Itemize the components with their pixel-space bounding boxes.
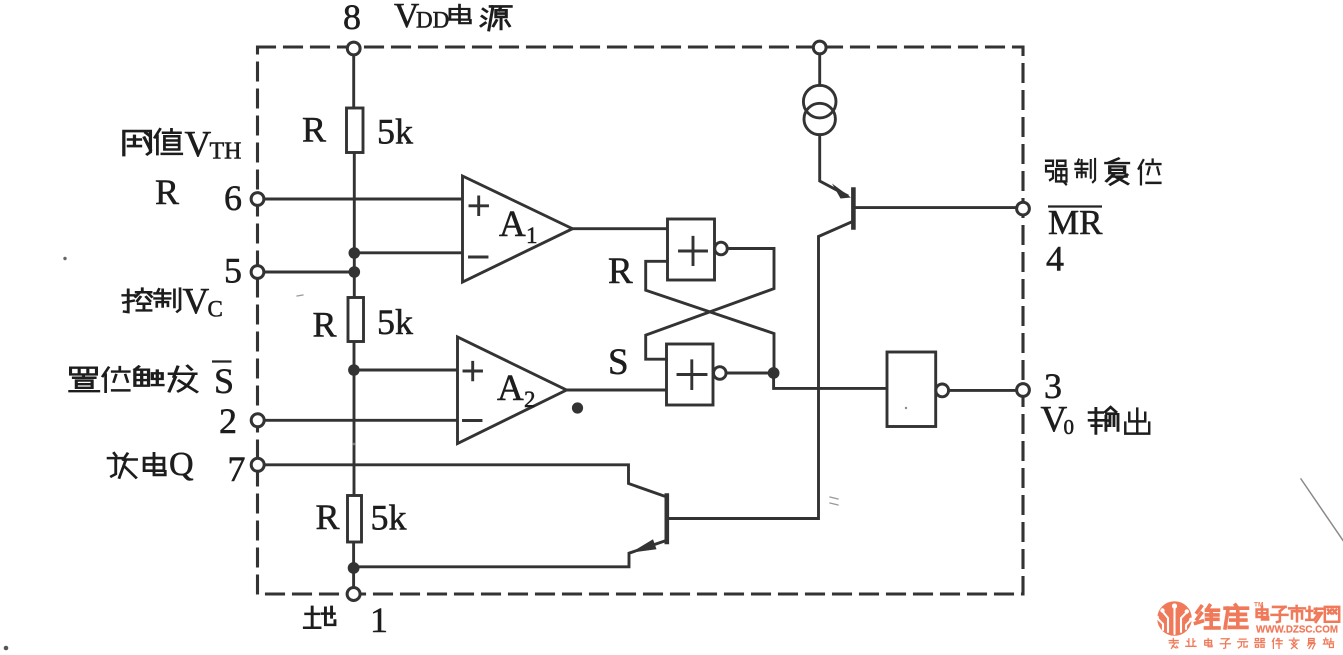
svg-text:5k: 5k bbox=[377, 302, 413, 342]
svg-text:R: R bbox=[313, 305, 337, 345]
svg-text:WWW.DZSC.COM: WWW.DZSC.COM bbox=[1256, 624, 1338, 636]
svg-text:TH: TH bbox=[210, 139, 242, 165]
svg-text:6: 6 bbox=[224, 178, 242, 218]
svg-text:DD: DD bbox=[416, 8, 449, 33]
svg-text:7: 7 bbox=[228, 449, 246, 489]
svg-text:A: A bbox=[499, 204, 526, 245]
svg-text:MR: MR bbox=[1048, 203, 1103, 242]
svg-text:8: 8 bbox=[343, 0, 361, 37]
svg-text:5k: 5k bbox=[371, 498, 407, 538]
svg-text:A: A bbox=[497, 368, 524, 409]
svg-text:TM: TM bbox=[1254, 602, 1263, 609]
svg-text:1: 1 bbox=[370, 600, 388, 640]
svg-text:2: 2 bbox=[219, 401, 237, 441]
svg-text:4: 4 bbox=[1046, 239, 1064, 279]
svg-text:R: R bbox=[608, 251, 633, 292]
svg-text:1: 1 bbox=[526, 223, 538, 248]
svg-text:0: 0 bbox=[1064, 415, 1075, 439]
svg-text:S: S bbox=[608, 342, 629, 383]
svg-text:R: R bbox=[155, 172, 179, 212]
svg-text:5: 5 bbox=[224, 251, 242, 291]
svg-text:C: C bbox=[208, 297, 223, 322]
svg-text:2: 2 bbox=[524, 387, 536, 412]
svg-text:R: R bbox=[302, 110, 326, 150]
svg-text:R: R bbox=[316, 497, 340, 537]
svg-text:V: V bbox=[185, 125, 212, 166]
svg-text:S: S bbox=[214, 361, 234, 401]
svg-text:V: V bbox=[183, 282, 210, 323]
svg-text:5k: 5k bbox=[377, 112, 413, 152]
svg-text:Q: Q bbox=[169, 446, 194, 483]
